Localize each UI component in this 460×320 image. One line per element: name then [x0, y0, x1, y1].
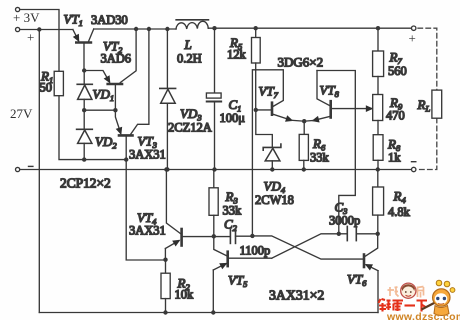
svg-text:2CZ12A: 2CZ12A — [168, 121, 212, 135]
wire C2 to VT6 base (cross) — [252, 236, 362, 259]
node VT1 base — [82, 68, 86, 72]
svg-text:VT5: VT5 — [228, 273, 247, 290]
svg-text:3AD30: 3AD30 — [91, 13, 128, 27]
node C3 right / R4 bottom / VT6 collector — [376, 232, 380, 236]
svg-text:VT6: VT6 — [347, 272, 367, 289]
diode VD1 — [83, 71, 85, 85]
node VT3 base — [124, 157, 128, 161]
resistor R4 4.8k — [377, 170, 379, 188]
svg-text:470: 470 — [386, 109, 405, 123]
node R3 bottom / VT5 collector — [212, 234, 216, 238]
mascot head — [433, 289, 450, 306]
svg-text:3AD6: 3AD6 — [101, 52, 132, 66]
node VT3 collector rail — [147, 27, 151, 31]
transistor VT5 3AX31 — [226, 252, 229, 266]
resistor R7 560 — [377, 28, 379, 51]
node C1 on common rail — [212, 167, 216, 171]
wire 27V positive — [20, 29, 73, 31]
capacitor C2 1100p — [229, 230, 231, 244]
svg-text:33k: 33k — [223, 204, 243, 218]
svg-text:560: 560 — [388, 64, 407, 78]
red weiku text — [379, 299, 428, 312]
logo circle face — [401, 283, 416, 298]
resistor R2 10k — [165, 260, 167, 274]
node VD3 on common rail — [165, 167, 169, 171]
svg-text:2CW18: 2CW18 — [255, 193, 294, 207]
node C3 left / VT8 collector — [337, 232, 341, 236]
node VD4 on common rail — [270, 167, 274, 171]
wire top rail left — [94, 28, 176, 30]
node VD2 anode on divider wire — [82, 157, 86, 161]
node rail to R7 — [376, 26, 380, 30]
svg-text:10k: 10k — [175, 288, 195, 302]
load RL dashed — [418, 28, 437, 169]
label minus 27V — [28, 165, 34, 167]
svg-text:1100p: 1100p — [240, 244, 271, 258]
wire R1 to regulator node — [59, 96, 127, 160]
wire VD junction to VT2 base node — [84, 109, 115, 111]
mascot crown — [436, 280, 442, 286]
node VD3 rail — [165, 27, 169, 31]
svg-text:R4: R4 — [393, 189, 407, 206]
svg-text:4.8k: 4.8k — [388, 205, 411, 219]
svg-text:50: 50 — [40, 81, 53, 95]
svg-text:3000p: 3000p — [329, 214, 360, 228]
terminal output minus — [412, 167, 416, 171]
transistor VT2 3AD6 — [108, 83, 122, 86]
wire VT5 base to C3 node (cross) — [272, 234, 339, 258]
terminal +3V bottom (27V +) — [16, 27, 20, 31]
node R8 bottom on common rail — [376, 167, 380, 171]
transistor VT6 3AX31 — [363, 255, 366, 268]
terminal 27V negative — [16, 167, 20, 171]
resistor R3 33k — [213, 170, 215, 188]
node VT2 base / VT3 emitter — [113, 108, 117, 112]
svg-text:+ 3V: + 3V — [13, 10, 40, 25]
wire top-left +3V feed — [20, 10, 59, 72]
transistor VT4 3AX31 — [180, 229, 183, 246]
svg-text:VT1: VT1 — [64, 12, 83, 29]
wire top rail right — [208, 27, 411, 29]
svg-text:+: + — [27, 30, 34, 45]
svg-text:C2: C2 — [224, 217, 238, 234]
svg-text:www.dzsc.com: www.dzsc.com — [386, 311, 460, 320]
node VT4 collector on common rail — [164, 167, 168, 171]
transistor VT3 3AX31 — [119, 134, 133, 137]
svg-text:VT7: VT7 — [259, 84, 279, 101]
diode VD2 — [83, 110, 85, 129]
terminal output plus — [412, 26, 416, 30]
svg-text:VT8: VT8 — [320, 83, 340, 100]
svg-text:27V: 27V — [10, 106, 33, 121]
transistor VT8 3DG6 — [329, 101, 332, 117]
node VT4 emitter — [163, 258, 167, 262]
node R6 on common rail — [302, 167, 306, 171]
wire bottom rail — [39, 312, 378, 314]
inductor L 0.2H — [176, 21, 208, 29]
resistor R6 33k — [303, 121, 305, 134]
node VT7 base — [254, 108, 258, 112]
resistor R5 12k — [254, 26, 258, 30]
node C2 right / VT7 collector line — [250, 234, 254, 238]
mascot body — [434, 306, 449, 316]
svg-text:VD1: VD1 — [93, 87, 115, 104]
label minus output — [411, 161, 417, 163]
potentiometer R9 470 — [377, 77, 379, 95]
zener diode VD4 2CW18 — [256, 110, 272, 147]
node VD1-VD2 junction — [82, 108, 86, 112]
svg-text:3AX31: 3AX31 — [129, 224, 166, 238]
wire VT3 base down to VT4 emitter — [126, 160, 165, 260]
diode VD3 2CZ12A — [166, 29, 168, 88]
node R2 bottom rail — [163, 310, 167, 314]
wire output common rail — [20, 169, 412, 171]
terminal +3V top — [16, 7, 20, 11]
capacitor C3 3000p — [346, 226, 348, 240]
svg-text:100μ: 100μ — [220, 111, 246, 125]
svg-text:RL: RL — [417, 97, 431, 114]
svg-text:3DG6×2: 3DG6×2 — [278, 55, 324, 70]
svg-text:VD2: VD2 — [95, 134, 117, 151]
resistor R1 — [54, 71, 63, 95]
svg-text:1k: 1k — [388, 151, 401, 165]
faint text zhao xin pian — [388, 287, 424, 298]
capacitor C1 100u — [212, 26, 216, 30]
watermark — [379, 280, 460, 320]
svg-text:3AX31: 3AX31 — [129, 148, 166, 162]
mascot stick — [422, 302, 438, 310]
node VT5 emitter bottom rail — [211, 310, 215, 314]
svg-text:0.2H: 0.2H — [177, 52, 202, 66]
transistor VT1 3AD30 — [76, 41, 91, 44]
node common emitters — [302, 119, 306, 123]
wire left vertical to bottom rail — [38, 30, 40, 313]
svg-text:+: + — [409, 31, 416, 46]
node VT2 collector rail — [134, 27, 138, 31]
svg-text:2CP12×2: 2CP12×2 — [60, 176, 111, 191]
node input junction — [37, 27, 41, 31]
svg-text:33k: 33k — [310, 151, 330, 165]
svg-text:12k: 12k — [227, 48, 247, 62]
resistor R8 1k — [377, 121, 379, 135]
svg-text:3AX31×2: 3AX31×2 — [269, 288, 324, 303]
transistor VT7 3DG6 — [271, 103, 274, 115]
svg-text:L: L — [184, 37, 192, 52]
